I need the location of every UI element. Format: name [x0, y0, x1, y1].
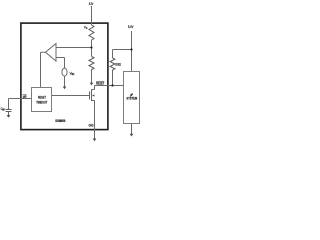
svg-text:5.0V: 5.0V	[128, 24, 134, 29]
svg-text:MR: MR	[23, 95, 27, 99]
svg-text:RESET: RESET	[96, 82, 105, 86]
svg-text:SGM809: SGM809	[55, 119, 65, 123]
svg-text:GND: GND	[89, 123, 94, 127]
svg-text:10kΩ: 10kΩ	[115, 62, 121, 66]
svg-text:3.3V: 3.3V	[89, 1, 94, 6]
svg-text:TIMEOUT: TIMEOUT	[36, 101, 48, 105]
svg-text:SYSTEM: SYSTEM	[126, 96, 137, 100]
svg-text:VREF: VREF	[70, 72, 75, 77]
svg-text:RESET: RESET	[38, 95, 47, 99]
